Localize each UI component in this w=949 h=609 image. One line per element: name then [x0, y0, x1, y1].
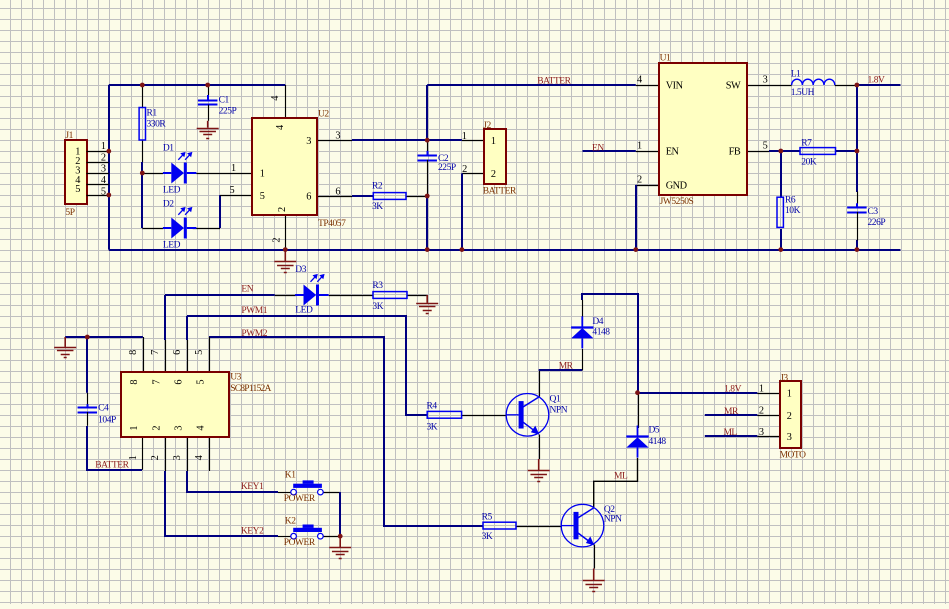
wire: J2 pin2 down to bus	[462, 173, 484, 175]
wire: MR net at Q1	[539, 369, 583, 371]
wire: MR stub at J3	[705, 414, 758, 416]
svg-text:LED: LED	[163, 186, 181, 196]
svg-text:1: 1	[637, 140, 642, 151]
svg-text:6: 6	[306, 192, 311, 203]
wire: K1 left pin	[278, 492, 291, 494]
resistor R4 3K	[427, 401, 462, 432]
wire: ML stub at J3	[705, 435, 758, 437]
wire: K2 right pin to ground junction	[323, 536, 340, 538]
junction dot	[855, 83, 860, 88]
wire: ground wire to U3 pin8	[65, 336, 143, 338]
wire: U3 pin3 vertical to KEY1	[187, 436, 189, 471]
IC U2 TP4057	[230, 96, 347, 243]
svg-text:1: 1	[491, 136, 496, 147]
svg-text:SC8P1152A: SC8P1152A	[230, 384, 271, 394]
svg-text:ML: ML	[723, 428, 737, 438]
junction dot	[85, 335, 90, 340]
svg-text:J2: J2	[483, 121, 491, 131]
wire: PWM1 net from U3 pin6 to R4	[187, 316, 427, 415]
svg-text:8: 8	[128, 350, 139, 355]
svg-text:4148: 4148	[592, 328, 610, 338]
svg-text:2: 2	[272, 238, 283, 243]
svg-text:226P: 226P	[868, 218, 886, 228]
svg-text:4: 4	[195, 426, 206, 431]
svg-text:D1: D1	[163, 143, 174, 153]
svg-text:2: 2	[277, 207, 288, 212]
wire: U2 pin6 to R2	[317, 196, 352, 198]
svg-text:6: 6	[173, 380, 184, 385]
connector J3 MOTO	[759, 373, 806, 460]
svg-text:4148: 4148	[649, 437, 667, 447]
svg-text:1.8V: 1.8V	[868, 76, 886, 86]
svg-text:225P: 225P	[219, 106, 237, 116]
svg-text:3K: 3K	[372, 302, 383, 312]
ground at K2	[329, 548, 351, 559]
svg-text:ML: ML	[614, 471, 628, 481]
svg-text:C4: C4	[98, 404, 109, 414]
resistor R1 330R	[139, 108, 166, 141]
svg-text:R3: R3	[372, 281, 383, 291]
wire: junction to D1 anode	[142, 173, 163, 175]
IC U1 JW5250S	[637, 53, 768, 207]
junction dot	[106, 193, 111, 198]
svg-text:TP4057: TP4057	[318, 219, 346, 229]
svg-text:4: 4	[194, 455, 205, 460]
wire: U2 pin3 to J2 pin1	[317, 140, 352, 142]
switch K2 POWER	[284, 516, 323, 548]
svg-text:3K: 3K	[482, 532, 493, 542]
svg-text:POWER: POWER	[284, 494, 316, 504]
wire: BATTER net vertical at C2	[426, 85, 428, 141]
wire: D1 junction down to D2	[141, 173, 143, 228]
svg-text:EN: EN	[666, 147, 680, 158]
wire: U3 pin2 vertical to KEY2	[165, 436, 167, 471]
resistor R5 3K	[482, 512, 516, 542]
wire: U3 pin8 vertical	[143, 337, 145, 372]
ground at U3 pin8 wire	[64, 337, 66, 347]
connector J1	[65, 131, 109, 218]
wire: junction down to D5 cathode	[638, 393, 640, 428]
svg-text:MR: MR	[724, 407, 739, 417]
inductor L1 1.5UH	[791, 70, 835, 98]
svg-text:7: 7	[150, 350, 161, 355]
svg-text:2: 2	[787, 411, 792, 422]
svg-text:GND: GND	[666, 181, 688, 192]
svg-text:3K: 3K	[427, 422, 438, 432]
wire: D1 cathode to U2 pin1	[196, 173, 252, 175]
svg-text:PWM1: PWM1	[241, 306, 267, 316]
wire: 1.8V column down through C3 to bus	[856, 85, 858, 192]
svg-text:6: 6	[335, 187, 340, 198]
svg-text:8: 8	[129, 380, 140, 385]
ground at C1	[197, 129, 219, 139]
svg-text:1: 1	[129, 426, 140, 431]
wire: C4 column from junction	[86, 337, 88, 393]
svg-text:5: 5	[101, 186, 106, 197]
junction dot	[338, 534, 343, 539]
svg-text:NPN: NPN	[550, 406, 568, 416]
svg-text:2: 2	[150, 455, 161, 460]
wire: R1 bottom to D1 junction	[141, 162, 143, 173]
svg-text:5P: 5P	[65, 208, 74, 218]
svg-text:D3: D3	[295, 265, 306, 275]
transistor Q1 NPN	[506, 394, 568, 437]
wire: U3 pin1 vertical	[142, 436, 144, 470]
LED D1	[163, 143, 197, 195]
svg-text:6: 6	[172, 350, 183, 355]
svg-text:BATTER: BATTER	[95, 460, 129, 470]
ground at Q1 emitter	[528, 471, 550, 482]
wire: R1 top pin	[142, 85, 144, 108]
wire: FB junction down through R6 to bus	[780, 151, 782, 197]
svg-text:FB: FB	[729, 147, 741, 158]
svg-text:10K: 10K	[785, 206, 801, 216]
svg-text:225P: 225P	[438, 163, 456, 173]
wire: C2 bottom to R2 junction to bus	[426, 195, 428, 250]
svg-text:KEY2: KEY2	[241, 527, 264, 537]
svg-text:2: 2	[151, 426, 162, 431]
wire: U2 pin4 vertical	[285, 85, 287, 118]
svg-text:J3: J3	[780, 373, 788, 383]
svg-text:20K: 20K	[801, 157, 817, 167]
svg-text:JW5250S: JW5250S	[660, 197, 694, 207]
svg-text:C3: C3	[868, 207, 879, 217]
svg-text:K1: K1	[285, 471, 296, 481]
junction dot	[140, 171, 145, 176]
wire: R1 bottom pin	[142, 140, 144, 162]
svg-text:3: 3	[759, 427, 764, 438]
wire: R5 right to Q2 base	[516, 526, 562, 528]
svg-text:1: 1	[787, 388, 792, 399]
svg-text:BATTER: BATTER	[537, 77, 571, 87]
svg-text:U2: U2	[318, 109, 329, 119]
svg-text:R7: R7	[801, 138, 812, 148]
svg-text:5: 5	[763, 140, 768, 151]
wire: L1 to 1.8V rail	[835, 85, 857, 87]
transistor Q2 NPN	[561, 504, 622, 547]
wire: U3 pin5 vertical	[209, 337, 211, 372]
wire: MR up to D4 anode	[582, 349, 584, 370]
ground left of U3	[54, 348, 76, 358]
diode D5 4148	[626, 426, 666, 458]
wire: to U2 pin5	[220, 195, 252, 197]
svg-text:3: 3	[172, 455, 183, 460]
junction dot	[855, 247, 860, 252]
svg-text:R2: R2	[372, 182, 383, 192]
junction dot	[778, 149, 783, 154]
svg-text:BATTER: BATTER	[483, 186, 517, 196]
junction dot	[635, 390, 640, 395]
wire: D2 cathode right	[193, 228, 220, 230]
svg-text:2: 2	[491, 169, 496, 180]
capacitor C3 226P	[847, 192, 885, 241]
junction dot	[106, 149, 111, 154]
wire: Q2 emitter down to ground	[594, 545, 596, 569]
wire: U2 pin2 vertical to ground bus	[285, 216, 287, 250]
svg-text:1: 1	[260, 169, 265, 180]
junction dot	[425, 247, 430, 252]
resistor R6 10K	[777, 195, 801, 227]
svg-text:330R: 330R	[147, 120, 167, 130]
capacitor C4 104P	[78, 393, 116, 426]
junction dot	[855, 149, 860, 154]
wire: U1 SW pin to L1	[747, 85, 792, 87]
svg-text:3: 3	[173, 426, 184, 431]
wire: R3 right to ground	[407, 295, 427, 297]
ground at U2 pin2	[274, 262, 296, 273]
diode D4 4148	[571, 316, 610, 348]
wire: R4 right to Q1 base	[462, 415, 507, 417]
wire: D3 anode left pin	[275, 295, 296, 297]
wire: R2 right to C2 column	[406, 196, 427, 198]
svg-text:5: 5	[260, 191, 265, 202]
wire: D5 anode down and left to Q2 collector	[594, 458, 638, 507]
wire: U1 GND pin down to bus	[636, 185, 659, 187]
wire: D4 cathode up and over to 1.8V/J3 column	[582, 294, 638, 393]
wire: K1 right to K2 right	[323, 492, 340, 494]
svg-text:2: 2	[101, 152, 106, 163]
junction dot	[778, 247, 783, 252]
junction dot	[633, 247, 638, 252]
svg-text:U1: U1	[660, 53, 671, 63]
svg-text:KEY1: KEY1	[241, 482, 264, 492]
wire: Q1 emitter down to ground	[539, 435, 541, 460]
svg-text:5: 5	[230, 185, 235, 196]
svg-text:5: 5	[194, 350, 205, 355]
switch K1 POWER	[284, 471, 323, 505]
wire: PWM2 net from U3 pin5 to R5	[209, 337, 460, 526]
svg-text:J1: J1	[65, 131, 73, 141]
junction dot	[425, 194, 430, 199]
svg-text:1: 1	[231, 163, 236, 174]
LED D3	[295, 265, 329, 315]
svg-text:104P: 104P	[98, 415, 116, 425]
junction dot	[283, 247, 288, 252]
wire: top horizontal J1/R1/C1 to U2 pin4	[109, 84, 285, 86]
wire: D3 cathode to R3	[329, 295, 373, 297]
svg-text:3: 3	[335, 131, 340, 142]
wire: J3 pin1 1.8V row	[638, 392, 758, 394]
wire: left vertical bus from top wire down to bottom ground bus	[108, 85, 110, 250]
junction dot	[460, 247, 465, 252]
IC U3 SC8P1152A	[121, 350, 272, 461]
svg-text:5: 5	[75, 184, 80, 195]
svg-text:1: 1	[759, 383, 764, 394]
svg-text:LED: LED	[295, 306, 313, 316]
svg-text:PWM2: PWM2	[241, 329, 267, 339]
svg-text:Q1: Q1	[550, 394, 561, 404]
svg-text:D2: D2	[163, 199, 174, 209]
svg-text:MOTO: MOTO	[780, 451, 807, 461]
svg-text:D5: D5	[649, 426, 660, 436]
junction dot	[140, 83, 145, 88]
svg-text:SW: SW	[726, 81, 741, 92]
junction dot	[205, 83, 210, 88]
wire: EN net from U3 pin7	[165, 294, 275, 296]
svg-text:EN: EN	[592, 144, 604, 154]
svg-text:5: 5	[195, 380, 206, 385]
svg-text:3: 3	[787, 432, 792, 443]
svg-text:3: 3	[101, 164, 106, 175]
capacitor C2 225P	[417, 140, 455, 195]
wire: to D2 anode	[142, 228, 163, 230]
wire: U1 FB pin to R7	[747, 151, 770, 153]
svg-text:4: 4	[101, 175, 106, 186]
svg-text:3: 3	[306, 136, 311, 147]
svg-text:MR: MR	[559, 362, 574, 372]
svg-text:VIN: VIN	[666, 81, 684, 92]
ground at Q2 emitter	[583, 581, 605, 592]
svg-text:4: 4	[270, 96, 281, 101]
junction dot	[425, 138, 430, 143]
svg-text:7: 7	[151, 380, 162, 385]
svg-text:1.8V: 1.8V	[724, 385, 742, 395]
wire: EN net stub to U1 EN pin	[583, 150, 636, 152]
wire: C4 bottom to BATTER wire to U3 pin1	[87, 426, 142, 470]
svg-text:1: 1	[128, 455, 139, 460]
wire: U1 VIN pin	[636, 85, 659, 87]
wire: bottom ground bus	[109, 249, 901, 251]
svg-text:EN: EN	[241, 285, 253, 295]
capacitor C1 225P	[198, 85, 237, 121]
resistor R3 3K	[372, 281, 407, 312]
svg-text:K2: K2	[285, 516, 296, 526]
wire: D4 cathode pin up	[582, 300, 584, 317]
svg-text:C1: C1	[219, 95, 230, 105]
svg-text:R6: R6	[785, 195, 796, 205]
svg-text:4: 4	[275, 125, 286, 130]
LED D2	[163, 199, 197, 250]
wire: U3 pin6 vertical	[186, 316, 188, 340]
wire: R7 right to 1.8V column	[836, 150, 857, 152]
wire: Q1 collector up to MR wire	[539, 370, 541, 396]
wire: K2 left pin	[278, 536, 291, 538]
resistor R2 3K	[372, 182, 406, 212]
resistor R7 20K	[800, 138, 836, 167]
svg-text:L1: L1	[791, 70, 801, 80]
svg-text:3: 3	[763, 74, 768, 85]
wire: D2 up to U2 pin5 row	[219, 195, 221, 228]
svg-text:NPN: NPN	[604, 515, 622, 525]
svg-text:D4: D4	[592, 317, 603, 327]
svg-text:1: 1	[101, 141, 106, 152]
wire: U3 pin7 vertical	[164, 295, 166, 340]
ground after R3	[416, 304, 438, 314]
svg-text:4: 4	[637, 74, 642, 85]
svg-text:R4: R4	[427, 401, 438, 411]
svg-text:R1: R1	[147, 108, 158, 118]
svg-text:R5: R5	[482, 512, 493, 522]
wire: BATTER net horizontal to U1 VIN	[427, 84, 636, 86]
svg-text:2: 2	[759, 406, 764, 417]
svg-text:3K: 3K	[372, 202, 383, 212]
wire: U3 pin4 vertical (unconnected)	[209, 436, 211, 471]
svg-text:2: 2	[637, 174, 642, 185]
connector J2 BATTER	[462, 121, 517, 196]
svg-text:LED: LED	[163, 240, 181, 250]
svg-text:2: 2	[462, 164, 467, 175]
svg-text:U3: U3	[230, 372, 241, 382]
svg-text:1.5UH: 1.5UH	[791, 88, 815, 98]
svg-text:POWER: POWER	[284, 538, 316, 548]
svg-text:1: 1	[462, 131, 467, 142]
